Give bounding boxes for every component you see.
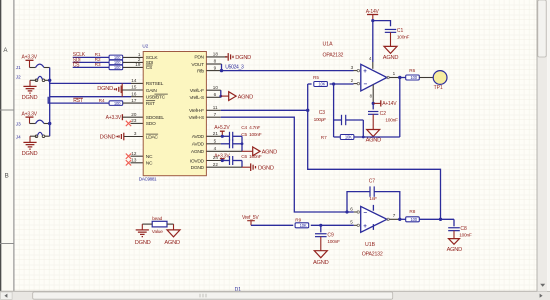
wire R3 to pin 19 bbox=[123, 62, 143, 68]
svg-text:10K: 10K bbox=[300, 223, 307, 228]
power A-14V bbox=[366, 9, 380, 21]
wire RSTSEL (J2 to pin 14) bbox=[50, 78, 144, 83]
wire C6 join bbox=[233, 161, 242, 168]
resistor R1 bbox=[95, 52, 123, 60]
svg-text:100nF: 100nF bbox=[397, 35, 410, 41]
op-amp U1B bbox=[350, 205, 400, 258]
wire C3 right down bbox=[362, 120, 365, 138]
svg-text:SDO: SDO bbox=[146, 121, 156, 127]
power A+14V bbox=[372, 100, 398, 107]
wire Vref_5V to R9 bbox=[251, 224, 293, 226]
pin 22 DGND stub bbox=[206, 162, 242, 167]
wire feedback vertical bbox=[333, 84, 335, 137]
resistor R6 bbox=[406, 68, 420, 80]
svg-text:TP1: TP1 bbox=[434, 85, 443, 91]
svg-text:A+3.3V: A+3.3V bbox=[106, 115, 122, 121]
junction R8 / VrefH bbox=[439, 218, 442, 221]
wire R4 to pin 17 bbox=[123, 98, 143, 103]
capacitor C8 bbox=[448, 226, 472, 239]
resistor R9 bbox=[295, 218, 309, 228]
svg-text:19: 19 bbox=[135, 62, 141, 67]
svg-text:3: 3 bbox=[134, 131, 137, 136]
junction at J3 bbox=[48, 122, 51, 125]
svg-text:U5024_3: U5024_3 bbox=[225, 64, 244, 70]
svg-text:C1: C1 bbox=[397, 28, 404, 34]
wire SCLK bbox=[73, 56, 110, 58]
pin 11 VrefH-F stub bbox=[206, 105, 220, 110]
pin 4 AGND stub bbox=[206, 146, 242, 151]
resistor R4 bbox=[99, 98, 123, 106]
wire U1A -input / R5 bbox=[308, 84, 358, 111]
svg-text:C2: C2 bbox=[380, 111, 387, 117]
wire R6 left bbox=[400, 77, 406, 79]
svg-text:U1A: U1A bbox=[323, 42, 334, 48]
svg-text:Rfb: Rfb bbox=[197, 68, 204, 74]
junction U1A output bbox=[398, 76, 401, 79]
pin 15 GAIN stub + DGND bar bbox=[97, 83, 143, 96]
svg-text:R7: R7 bbox=[321, 135, 327, 140]
svg-text:10K: 10K bbox=[345, 135, 352, 140]
svg-text:7: 7 bbox=[214, 112, 217, 117]
power A+3.3V (J3 block) bbox=[22, 111, 38, 123]
svg-text:NC: NC bbox=[146, 161, 153, 167]
svg-text:−: − bbox=[364, 81, 368, 88]
wire J1 to J2 bbox=[49, 68, 51, 81]
svg-text:Value: Value bbox=[152, 229, 163, 235]
wire to C4 bbox=[222, 135, 229, 137]
wire R6 to TP1 bbox=[419, 77, 433, 79]
junction A-14V bbox=[371, 19, 374, 22]
svg-text:C5 100nF: C5 100nF bbox=[241, 132, 261, 138]
wire A+14V to C2 bbox=[372, 103, 374, 109]
svg-text:A+14V: A+14V bbox=[382, 101, 397, 107]
svg-text:AGND: AGND bbox=[366, 138, 382, 144]
svg-text:AGND: AGND bbox=[383, 55, 399, 61]
svg-text:4: 4 bbox=[214, 146, 217, 151]
svg-text:14: 14 bbox=[131, 78, 137, 83]
svg-text:C9: C9 bbox=[327, 233, 334, 239]
wire to C8 bbox=[453, 219, 455, 226]
svg-text:1: 1 bbox=[393, 71, 396, 76]
svg-text:RSTSEL: RSTSEL bbox=[146, 81, 164, 87]
wire C1 to AGND bbox=[390, 32, 392, 46]
svg-text:OPA2132: OPA2132 bbox=[362, 252, 383, 258]
svg-text:100nF: 100nF bbox=[327, 239, 340, 245]
IC U2 part name bbox=[139, 176, 157, 181]
IC U2 designator bbox=[142, 43, 148, 48]
resistor R7 bbox=[321, 135, 354, 141]
pin 10 VrefL-F stub bbox=[206, 85, 220, 90]
wire C4/C5 join bbox=[233, 136, 244, 151]
svg-text:C6 100nF: C6 100nF bbox=[241, 154, 261, 160]
capacitor C1 bbox=[385, 28, 410, 41]
capacitor C9 bbox=[315, 233, 340, 246]
ground DGND (J4) bbox=[22, 136, 38, 157]
svg-text:5: 5 bbox=[214, 139, 217, 144]
svg-text:20: 20 bbox=[131, 112, 137, 117]
pin 5 AVDD stub bbox=[206, 139, 220, 144]
pin 21 AVDD stub bbox=[206, 131, 222, 136]
svg-text:VrefH-S: VrefH-S bbox=[189, 115, 205, 121]
svg-text:C4 4.7nF: C4 4.7nF bbox=[241, 125, 260, 131]
power AGND at VrefL bbox=[221, 92, 253, 101]
pin 24 IOVDD stub bbox=[206, 155, 222, 160]
resistor R5 bbox=[313, 75, 327, 87]
svg-text:13: 13 bbox=[131, 158, 137, 163]
wire C8 to AGND bbox=[453, 231, 455, 239]
wire VrefH-F bbox=[221, 109, 308, 111]
svg-text:DGND: DGND bbox=[22, 95, 38, 101]
power AGND at C8 bbox=[447, 239, 463, 254]
junction IOVDD bbox=[221, 159, 224, 162]
junction U1B -input bbox=[345, 210, 348, 213]
ground DGND (bead) bbox=[135, 224, 151, 246]
svg-text:100nF: 100nF bbox=[459, 233, 472, 239]
svg-text:VrefL-F: VrefL-F bbox=[190, 88, 204, 94]
svg-text:DGND: DGND bbox=[258, 165, 274, 171]
net label SDI bbox=[73, 57, 81, 63]
ground DGND (J2) bbox=[22, 80, 38, 101]
svg-text:100: 100 bbox=[411, 75, 418, 80]
svg-text:22: 22 bbox=[213, 162, 219, 167]
wire R8 left bbox=[400, 218, 406, 220]
svg-text:5: 5 bbox=[350, 220, 353, 225]
svg-text:NC: NC bbox=[146, 154, 153, 160]
power DGND at pin 22 bbox=[242, 163, 274, 171]
capacitor C3 bbox=[314, 110, 364, 125]
pin 6 VrefL-S stub bbox=[206, 92, 220, 97]
junction C9 bbox=[319, 224, 322, 227]
svg-text:100: 100 bbox=[411, 217, 418, 222]
wire U1A pin 8 to A+14V bbox=[370, 85, 374, 104]
capacitor C6 bbox=[230, 154, 262, 165]
wire R7 left bbox=[334, 136, 341, 138]
svg-text:DGND: DGND bbox=[100, 135, 116, 141]
net label SCLK bbox=[73, 52, 86, 58]
svg-text:11: 11 bbox=[213, 105, 218, 110]
net label D1 bbox=[235, 287, 242, 293]
wire R2 to pin 2 bbox=[123, 57, 143, 63]
svg-text:R5: R5 bbox=[313, 75, 319, 80]
wire R1 to pin 1 bbox=[123, 52, 143, 58]
svg-text:B: B bbox=[5, 172, 9, 179]
capacitor C2 bbox=[368, 111, 398, 123]
wire C9 to AGND bbox=[320, 237, 322, 251]
svg-text:J1: J1 bbox=[16, 65, 21, 70]
svg-text:J4: J4 bbox=[16, 134, 21, 139]
svg-text:R6: R6 bbox=[409, 68, 415, 73]
svg-text:AGND: AGND bbox=[238, 94, 254, 100]
resistor R2 bbox=[95, 57, 123, 65]
net label U5024_3 bbox=[225, 64, 244, 70]
wire R7 to U1A output bbox=[354, 78, 400, 138]
svg-text:R3: R3 bbox=[95, 62, 101, 67]
ferrite bead L1 bbox=[142, 216, 173, 235]
power A+5.2V at AVDD bbox=[214, 125, 230, 136]
pin 23 SDO no-connect bbox=[126, 118, 143, 126]
wire to C5 bbox=[221, 143, 230, 145]
svg-text:DGND: DGND bbox=[97, 86, 113, 92]
svg-text:RST: RST bbox=[146, 101, 155, 107]
svg-text:CS: CS bbox=[146, 65, 153, 71]
pin 18 PDN to DGND bar bbox=[206, 52, 251, 61]
wire A-14V to C1 bbox=[373, 21, 391, 27]
svg-text:15: 15 bbox=[131, 85, 137, 90]
svg-text:+: + bbox=[363, 68, 367, 75]
IC U2 DAC9881 body bbox=[143, 52, 206, 176]
wire C7 loop bbox=[347, 192, 400, 220]
svg-text:3: 3 bbox=[351, 65, 354, 70]
jumper J4 bbox=[16, 132, 50, 139]
svg-text:6: 6 bbox=[214, 92, 217, 97]
wire USB/BTC (chain to pin 16) bbox=[50, 91, 144, 96]
pin 7 VrefH-S stub bbox=[206, 112, 220, 117]
svg-text:DGND: DGND bbox=[235, 55, 251, 61]
capacitor C7 bbox=[369, 179, 377, 202]
test point TP1 bbox=[433, 71, 447, 92]
svg-text:7: 7 bbox=[393, 213, 396, 218]
svg-text:AGND: AGND bbox=[313, 260, 329, 266]
svg-text:OPA2132: OPA2132 bbox=[323, 53, 344, 59]
svg-text:16: 16 bbox=[131, 91, 137, 96]
net label RST (overline) bbox=[73, 98, 83, 104]
wire VrefH-S to U1B -input bbox=[221, 117, 354, 212]
wire RST bbox=[48, 97, 109, 103]
svg-text:100nF: 100nF bbox=[385, 117, 398, 123]
svg-text:1nF: 1nF bbox=[369, 196, 377, 202]
svg-text:J3: J3 bbox=[16, 121, 21, 126]
svg-text:10: 10 bbox=[213, 85, 219, 90]
svg-text:R9: R9 bbox=[295, 218, 301, 223]
vertical scrollbar bbox=[537, 0, 550, 291]
resistor R8 bbox=[406, 209, 420, 222]
capacitor C5 bbox=[230, 132, 262, 148]
power AGND at pin 4 bbox=[242, 147, 277, 156]
power Vref_5V bbox=[242, 215, 259, 225]
svg-text:IOVDD: IOVDD bbox=[190, 158, 205, 164]
power DGND at LDAC pin 3 bbox=[100, 131, 144, 140]
svg-text:23: 23 bbox=[131, 118, 137, 123]
jumper J3 bbox=[16, 120, 50, 126]
svg-text:AGND: AGND bbox=[262, 150, 278, 156]
svg-text:DGND: DGND bbox=[191, 165, 205, 171]
net label CS (overline) bbox=[73, 62, 80, 68]
power AGND at C2 bbox=[366, 130, 382, 144]
power AGND at C1 bbox=[383, 46, 399, 61]
power A+3.3V (J1 block) bbox=[22, 55, 38, 68]
op-amp U1A bbox=[323, 42, 400, 91]
svg-text:21: 21 bbox=[213, 131, 219, 136]
junction at J2 bbox=[48, 79, 51, 82]
svg-text:AGND: AGND bbox=[447, 247, 463, 253]
resistor R3 bbox=[95, 62, 123, 70]
svg-text:C3: C3 bbox=[319, 110, 326, 116]
svg-text:AVDD: AVDD bbox=[192, 134, 205, 140]
svg-text:LDAC: LDAC bbox=[146, 134, 159, 140]
svg-text:DGND: DGND bbox=[135, 240, 151, 246]
svg-text:6: 6 bbox=[350, 206, 353, 211]
pin 8 VOUT stub bbox=[206, 59, 221, 64]
svg-text:VOUT: VOUT bbox=[191, 62, 204, 68]
svg-text:12: 12 bbox=[131, 151, 137, 156]
wire to C9 bbox=[320, 225, 322, 232]
svg-text:C8: C8 bbox=[460, 226, 467, 232]
power A+3.3V at SDOSEL pin 20 bbox=[106, 112, 144, 121]
power A+3.3V at IOVDD bbox=[214, 153, 230, 160]
svg-text:24: 24 bbox=[213, 155, 219, 160]
svg-text:17: 17 bbox=[131, 98, 137, 103]
svg-text:DAC9881: DAC9881 bbox=[139, 176, 157, 181]
junction VrefH-F / R5 bbox=[306, 109, 309, 112]
junction at Rfb bbox=[220, 69, 223, 72]
svg-text:AGND: AGND bbox=[191, 149, 205, 155]
svg-text:100: 100 bbox=[114, 101, 121, 106]
svg-text:2: 2 bbox=[351, 78, 354, 83]
wire VOUT to Rfb bbox=[221, 64, 223, 71]
junction AVDD 21 bbox=[221, 135, 224, 138]
wire SDI bbox=[73, 61, 110, 63]
svg-text:J2: J2 bbox=[16, 75, 21, 80]
svg-text:VrefH-F: VrefH-F bbox=[189, 108, 204, 114]
svg-text:C7: C7 bbox=[369, 179, 376, 185]
svg-text:U1B: U1B bbox=[365, 242, 376, 248]
svg-text:−: − bbox=[363, 210, 367, 217]
wire VrefL join bbox=[219, 90, 222, 97]
svg-text:8: 8 bbox=[214, 59, 217, 64]
svg-text:100pF: 100pF bbox=[314, 117, 327, 123]
svg-text:9: 9 bbox=[214, 65, 217, 70]
pin 12 NC no-connect bbox=[126, 151, 143, 159]
svg-text:AGND: AGND bbox=[164, 240, 180, 246]
wire A-14V to U1A pin 4 bbox=[369, 21, 373, 69]
pin 13 NC no-connect bbox=[126, 158, 143, 166]
svg-text:AVDD: AVDD bbox=[192, 142, 205, 148]
wire VrefH node down bbox=[308, 110, 441, 219]
jumper J2 bbox=[16, 75, 50, 82]
svg-text:GAIN: GAIN bbox=[146, 88, 158, 94]
svg-text:+: + bbox=[363, 223, 367, 230]
wire CS bbox=[73, 66, 110, 68]
wire U5024_3 to U1A +input bbox=[222, 70, 354, 72]
pin 9 Rfb stub bbox=[206, 65, 221, 70]
horizontal scrollbar bbox=[0, 291, 550, 300]
jumper J1 bbox=[16, 64, 50, 70]
svg-text:SDOSEL: SDOSEL bbox=[146, 115, 165, 121]
junction C7 output bbox=[398, 218, 401, 221]
svg-text:USB/BTC: USB/BTC bbox=[146, 95, 166, 101]
wire R8 right bbox=[419, 218, 454, 220]
svg-text:PDN: PDN bbox=[194, 55, 204, 61]
capacitor C4 bbox=[230, 125, 261, 141]
svg-text:VrefL-S: VrefL-S bbox=[189, 95, 204, 101]
svg-text:100: 100 bbox=[114, 65, 121, 70]
svg-text:R4: R4 bbox=[99, 98, 105, 103]
sheet border and zone labels bbox=[0, 0, 14, 300]
power AGND at C9 bbox=[313, 251, 329, 266]
wire C2 to AGND bbox=[372, 114, 374, 129]
power AGND (bead) bbox=[164, 224, 180, 246]
svg-text:DGND: DGND bbox=[22, 151, 38, 157]
wire jumper chain vertical bbox=[49, 80, 51, 136]
wire to C6 bbox=[222, 160, 229, 162]
wire R9 to U1B +input bbox=[311, 224, 354, 226]
svg-text:10K: 10K bbox=[318, 82, 325, 87]
svg-text:U2: U2 bbox=[142, 43, 148, 48]
junction R5 right bbox=[332, 82, 335, 85]
svg-text:R8: R8 bbox=[409, 209, 415, 214]
svg-text:18: 18 bbox=[213, 52, 219, 57]
